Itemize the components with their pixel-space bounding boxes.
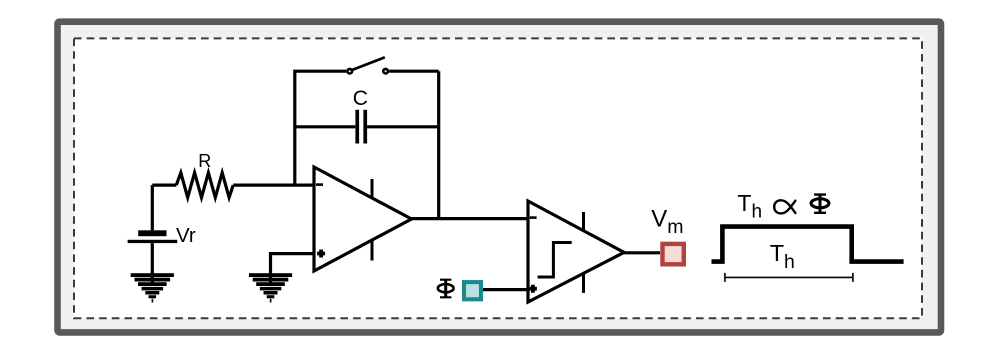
resistor R — [176, 173, 233, 198]
wire (U2 output to Vm) — [622, 251, 660, 254]
wire (Vr to resistor) — [152, 184, 176, 187]
label Th proportional to PHI — [737, 190, 762, 223]
waveform pulse — [712, 227, 904, 262]
capacitor C — [355, 110, 367, 144]
ground (op-amp U1) — [249, 273, 292, 302]
wire (feedback right vertical) — [437, 71, 440, 218]
node Vm output square — [663, 244, 684, 264]
comparator U2 — [528, 201, 624, 302]
wire (cap branch right) — [367, 125, 439, 128]
op-amp U1 — [314, 167, 412, 271]
wire (cap branch left) — [295, 125, 356, 128]
svg-text:R: R — [198, 151, 211, 171]
svg-text:Vr: Vr — [176, 224, 196, 247]
wire (feedback left vertical) — [295, 71, 347, 185]
wire (PHI to U2 + input) — [483, 288, 529, 291]
wire (switch to right vertical) — [389, 70, 439, 73]
label PHI (in formula) — [811, 195, 829, 213]
wire (U1 output to comparator) — [410, 217, 530, 220]
wire (U1 + input to ground) — [271, 254, 315, 286]
proportional-to symbol — [774, 200, 795, 213]
label PHI — [438, 280, 454, 298]
switch S1 — [348, 57, 388, 73]
ground (below Vr) — [131, 273, 174, 302]
battery Vr — [128, 185, 178, 286]
node PHI input square — [464, 282, 481, 299]
svg-text:C: C — [353, 87, 368, 110]
measurement line Th — [725, 273, 853, 282]
wire (resistor to op-amp inverting input) — [233, 184, 315, 187]
